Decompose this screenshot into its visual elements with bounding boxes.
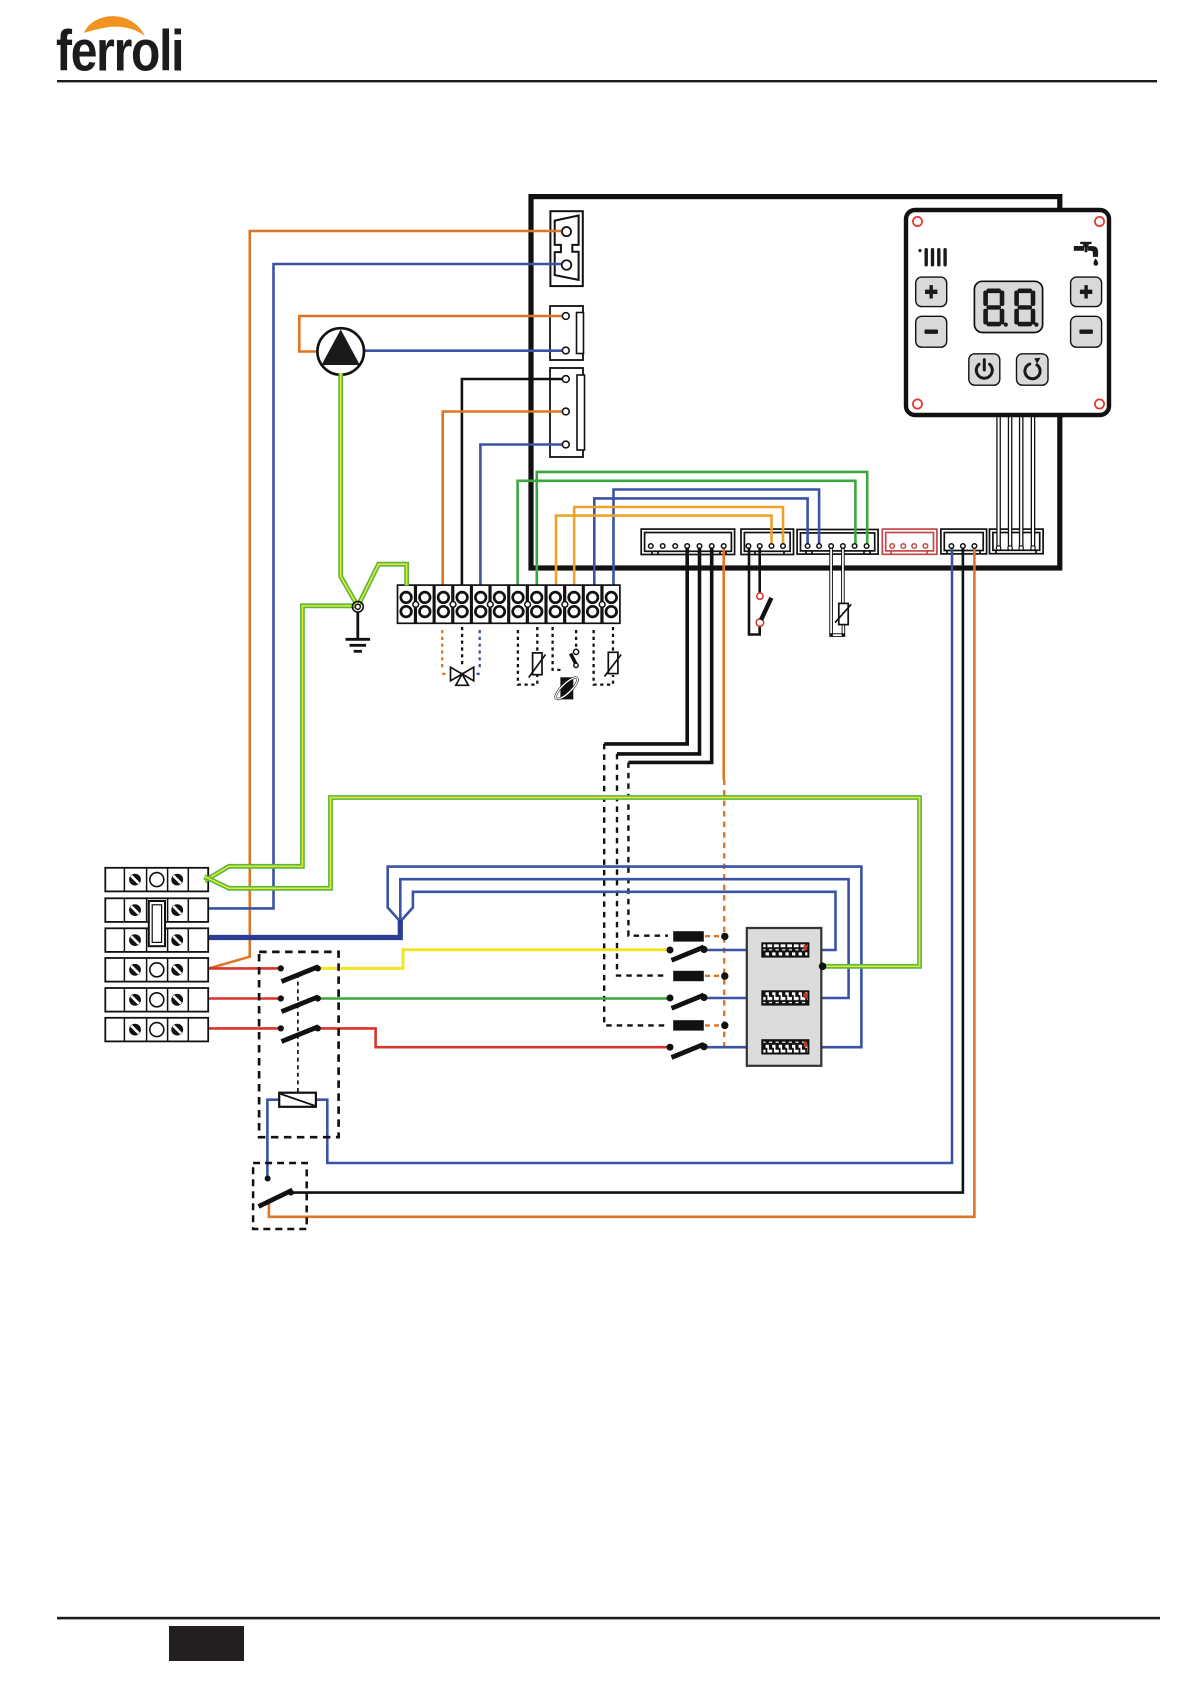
outdoor sensor thermistor	[835, 603, 851, 624]
earth node on heater chassis	[819, 963, 827, 971]
red wire terminal row5 to switch2	[208, 997, 278, 1000]
wire green loop C pin5 to terminal 7	[518, 481, 856, 586]
connector E (3-pin)	[941, 529, 987, 554]
connector D pins	[890, 544, 928, 549]
panel group	[906, 210, 1109, 550]
svg-text:ferroli: ferroli	[56, 19, 183, 83]
earth wire pump to ground junction and terminal 1	[341, 373, 407, 606]
footer page-number block	[169, 1626, 244, 1661]
red wire terminal row4 to switch1	[209, 967, 278, 970]
connector X2 pins redraw	[562, 313, 569, 354]
earth wire junction to left terminal row 1	[205, 606, 356, 881]
wire orange solid from connector A pin7	[722, 548, 725, 780]
wire blue from connector X3 pin3 to terminal 5	[480, 445, 566, 586]
thick blue neutral wire to terminal row 3	[208, 920, 403, 938]
heating sensor thermistor	[604, 652, 621, 676]
flow turbine symbol	[553, 675, 580, 702]
wire orange mains L from connector X1 to terminal row 4	[209, 231, 563, 968]
contactor mechanical link	[297, 974, 299, 1092]
terminal strip X4 (12 poles)	[398, 585, 620, 623]
orange link node 2	[721, 972, 728, 979]
controller board outline	[531, 197, 1060, 568]
wire orange loop B pin3 to terminal 9	[556, 516, 772, 586]
header rule	[57, 80, 1157, 82]
ground symbol	[346, 613, 371, 652]
heater relay fixed contact 1	[673, 931, 704, 941]
heating element R1	[762, 943, 808, 956]
earth wires on top	[205, 373, 920, 970]
contactor switch 1	[278, 965, 321, 981]
connector B (4-pin)	[741, 529, 794, 554]
connector F (display, 4-pin)	[990, 529, 1044, 554]
red wire contactor pole3	[319, 1028, 667, 1047]
wire blue loop C pin2 to terminal 12	[614, 490, 820, 586]
orange dashed stub to contact 3	[705, 1024, 722, 1026]
panel screw bottom-right	[1095, 399, 1104, 408]
button DHW minus	[1071, 316, 1102, 347]
room thermostat contact	[756, 593, 771, 626]
button DHW plus	[1071, 277, 1102, 307]
flow switch contact	[571, 649, 579, 667]
pump M1	[317, 328, 364, 375]
connector C (6-pin)	[797, 530, 878, 555]
orange link node 3	[721, 1022, 728, 1029]
wire relay-drive 3 black solid from connector A pin6	[628, 548, 711, 762]
contactor switch 3	[278, 1025, 321, 1041]
orange link node 1	[721, 933, 728, 940]
radiator icon	[918, 248, 946, 267]
contactor K1 dashed box	[259, 952, 339, 1137]
footer group	[57, 1617, 1160, 1661]
yellow wire contactor pole1	[319, 950, 667, 969]
header group	[56, 16, 1157, 83]
wire green loop C pin6 to terminal 8	[537, 472, 867, 586]
blue wire element1 collector	[400, 892, 835, 950]
connector X3 3-pin plug	[550, 368, 585, 457]
panel screw bottom-left	[913, 399, 922, 408]
button reset	[1017, 354, 1049, 385]
panel screw top-right	[1095, 217, 1104, 226]
button CH plus	[916, 277, 947, 307]
orange dashed stub to contact 1	[705, 935, 722, 937]
blue wire element3 collector	[388, 867, 862, 1048]
wire blue pump return to connector X2	[364, 349, 563, 352]
heater switch 3	[667, 1043, 708, 1057]
wire sensor double-line to C pin4	[841, 548, 845, 604]
connector E pins	[949, 544, 977, 549]
black wire box2 switch to connector E pin2	[291, 548, 963, 1193]
heater relay fixed contact 3	[673, 1020, 704, 1030]
blue stub pole3 to element3	[705, 1046, 763, 1049]
connector X1 pins redraw	[562, 227, 571, 270]
heater switch 2	[667, 994, 708, 1008]
heating element R2	[762, 991, 808, 1004]
heater switch 1	[667, 946, 708, 960]
wire relay-drive 1 black dashed	[604, 744, 668, 1026]
remote switch contact	[259, 1176, 294, 1207]
wire relay-drive 2 black solid from connector A pin5	[617, 548, 700, 754]
DHW sensor dashed wiring	[518, 627, 537, 685]
heater relay fixed contact 2	[673, 971, 704, 981]
heating element R3	[762, 1040, 808, 1053]
wire blue mains N from connector X1 to terminal row 2	[208, 264, 563, 908]
contactor switch 2	[278, 995, 321, 1011]
connector X1 power plug	[550, 211, 582, 286]
contactor coil	[279, 1093, 316, 1107]
ferroli logo swoosh	[84, 16, 145, 36]
red wire terminal row6 to switch3	[208, 1027, 278, 1030]
button power	[969, 354, 1000, 385]
components group	[105, 227, 976, 1229]
wire blue loop C pin1 to terminal 11	[594, 498, 807, 585]
blue wire relay coil right to connector E pin1	[315, 548, 952, 1163]
wire orange pump feed from connector X2	[299, 316, 563, 352]
wires group	[208, 231, 974, 1217]
heater bank enclosure	[747, 928, 822, 1066]
blue stub pole1 to element1	[705, 949, 763, 952]
wire relay-drive 2 black dashed	[617, 754, 668, 976]
connector X2 pump plug	[550, 306, 584, 360]
DHW sensor thermistor	[529, 653, 546, 678]
wire orange loop B pin4 to terminal 10	[574, 507, 783, 586]
blue stub pole2 to element2	[705, 997, 763, 1000]
wire black room-stat to B pin2	[758, 548, 761, 600]
wire sensor double-line from C pin3	[831, 548, 843, 635]
fuse between rows B and C	[149, 901, 165, 946]
connector A (7-pin)	[641, 529, 734, 554]
wire relay-drive 3 black dashed	[628, 762, 668, 935]
blue wire relay coil left to box2 switch	[267, 1100, 280, 1176]
display panel wires to connector F	[996, 413, 1035, 550]
footer rule	[57, 1617, 1160, 1620]
wire orange dashed common	[723, 780, 725, 1046]
connector X3 pins redraw	[562, 376, 569, 448]
wire orange from connector X3 pin2 to terminal 3	[443, 412, 566, 586]
earth wire heater chassis to left terminal row 1	[205, 798, 920, 967]
diverter valve symbol	[451, 667, 474, 685]
faucet icon	[1074, 242, 1098, 266]
orange dashed stub to contact 2	[705, 975, 722, 977]
display panel body	[906, 210, 1109, 415]
left terminal rows	[105, 868, 208, 1042]
board group	[531, 197, 1060, 568]
panel screw top-left	[913, 217, 922, 226]
7-segment display	[974, 281, 1042, 332]
connector B pins	[746, 544, 785, 549]
button CH minus	[916, 316, 947, 347]
wire black from connector X3 pin1 to terminal 4	[462, 379, 566, 586]
wire black room-stat from B pin1	[749, 548, 760, 635]
blue wire element2 collector	[400, 879, 848, 998]
connector C pins	[805, 544, 869, 549]
orange wire box2 switch to connector E pin3	[269, 548, 975, 1217]
heating sensor dashed wiring	[594, 627, 613, 685]
connector A pins	[649, 544, 727, 549]
ground junction node	[352, 601, 363, 612]
diverter valve dashed wiring	[442, 627, 480, 674]
remote switch dashed box	[253, 1163, 307, 1229]
flow switch dashed wiring	[553, 627, 577, 670]
connector D (4-pin, unused)	[882, 529, 937, 554]
green wire contactor pole2	[319, 997, 667, 1000]
wire relay-drive 1 black solid from connector A pin4	[604, 548, 687, 744]
